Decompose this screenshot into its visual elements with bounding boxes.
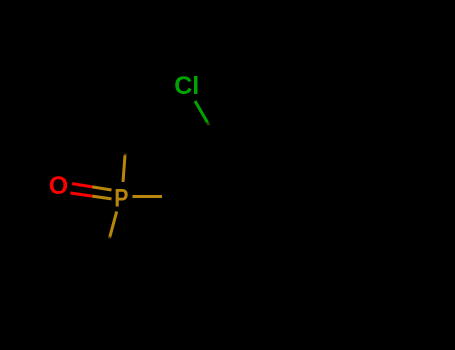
svg-text:P: P bbox=[114, 184, 128, 212]
svg-text:Cl: Cl bbox=[174, 72, 199, 100]
svg-text:O: O bbox=[49, 172, 68, 200]
